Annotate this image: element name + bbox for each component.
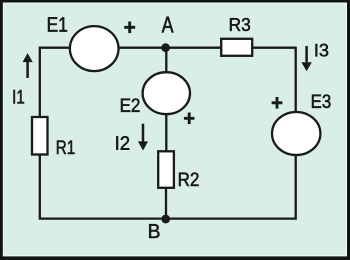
polarity + of E3 bbox=[272, 97, 283, 109]
wire bbox=[165, 188, 167, 219]
current arrow I2 bbox=[138, 124, 148, 151]
voltage source E3 bbox=[272, 112, 320, 155]
current arrow I3 bbox=[301, 46, 311, 71]
label R1 bbox=[57, 141, 75, 155]
resistor R2 bbox=[158, 151, 174, 188]
resistor R3 bbox=[221, 39, 252, 56]
node A bbox=[161, 43, 170, 52]
polarity + of E2 bbox=[184, 113, 195, 125]
wire bbox=[40, 154, 166, 218]
wire bbox=[165, 48, 167, 73]
label I2 bbox=[116, 136, 129, 150]
resistor R1 bbox=[32, 117, 48, 155]
label E3 bbox=[312, 95, 331, 109]
voltage source E1 bbox=[70, 26, 119, 71]
voltage source E2 bbox=[143, 72, 190, 114]
label I1 bbox=[14, 90, 25, 104]
node B bbox=[161, 215, 170, 224]
node label A bbox=[162, 17, 174, 33]
polarity + of E1 bbox=[124, 22, 135, 34]
wire bbox=[252, 48, 296, 113]
wire bbox=[165, 114, 167, 152]
label R2 bbox=[179, 173, 199, 187]
wire bbox=[40, 48, 71, 118]
label R3 bbox=[230, 18, 250, 31]
wire bbox=[118, 47, 222, 49]
label E1 bbox=[48, 17, 67, 31]
label E2 bbox=[121, 99, 140, 112]
label I3 bbox=[316, 44, 329, 57]
node label B bbox=[149, 224, 159, 238]
wire bbox=[166, 155, 296, 219]
current arrow I1 bbox=[23, 53, 33, 78]
